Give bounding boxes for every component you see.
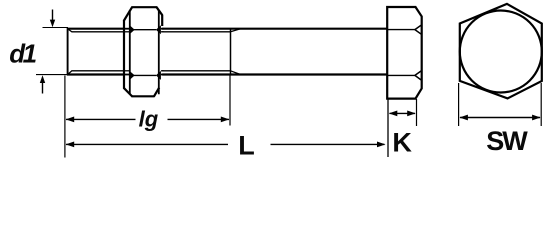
bolt head (side view outline) — [387, 7, 422, 99]
thread crest top inner line — [72, 31, 231, 33]
head chamfer wedge bottom — [415, 71, 421, 80]
head chamfer wedge top — [415, 25, 421, 34]
L arrow left — [66, 142, 75, 148]
nut top-left corner slope — [124, 7, 133, 21]
SW right extension line — [540, 83, 542, 126]
thread end chamfer bottom — [68, 71, 72, 75]
L arrow right — [377, 142, 386, 148]
lg dimension line right — [168, 118, 230, 120]
lg dimension line left — [66, 118, 136, 120]
d1 extension line bottom — [36, 74, 68, 76]
thread stub right of nut wedges top — [161, 28, 164, 30]
head end view inscribed circle — [460, 11, 542, 93]
K arrow right — [407, 111, 416, 117]
nut bottom-left corner slope — [124, 88, 133, 97]
nut chamfer wedge top right — [156, 25, 161, 34]
L/K shared extension line under head left face — [387, 99, 389, 157]
svg-text:d1: d1 — [9, 39, 36, 69]
lg right extension line — [229, 76, 231, 126]
thread left end face — [67, 28, 69, 75]
nut chamfer line top — [133, 29, 156, 31]
K arrow left — [389, 111, 398, 117]
head end view hexagon — [460, 4, 542, 99]
SW arrow right — [532, 115, 541, 121]
head chamfer line bottom — [388, 74, 416, 76]
thread runout diagonal bottom — [231, 71, 241, 75]
K dimension line — [390, 112, 416, 114]
head chamfer line top — [388, 29, 416, 31]
thread end chamfer top — [68, 29, 72, 32]
d1 arrow top — [52, 10, 54, 22]
nut right edge upper stub — [161, 15, 163, 26]
nut left edge — [123, 20, 125, 88]
nut right facet line — [158, 10, 160, 94]
d1 extension line top — [43, 27, 69, 29]
svg-text:K: K — [392, 127, 412, 157]
SW arrow left — [459, 115, 468, 121]
d1 arrow bottom — [42, 82, 44, 94]
nut chamfer wedge top left — [130, 25, 135, 34]
svg-text:lg: lg — [139, 107, 159, 132]
nut bottom-right corner slope — [154, 88, 159, 97]
SW dimension line — [460, 117, 540, 119]
lg arrow left — [66, 117, 75, 123]
nut top-right corner slope — [156, 7, 162, 16]
svg-text:L: L — [238, 130, 255, 160]
nut top edge — [132, 6, 158, 8]
lg arrow right — [221, 117, 230, 123]
shank bottom outer line — [67, 73, 388, 75]
thread runout line — [230, 28, 232, 75]
SW left extension line — [458, 83, 460, 126]
K right extension line — [416, 99, 418, 126]
thread crest bottom inner line — [72, 70, 231, 72]
svg-text:SW: SW — [486, 126, 528, 156]
lg/L left extension line — [64, 76, 66, 158]
L dimension line right — [271, 143, 385, 145]
nut chamfer line bottom — [133, 74, 156, 76]
thread stub in nut left facet top — [124, 28, 130, 30]
shank top outer line — [67, 28, 388, 30]
nut chamfer wedge bottom right — [156, 71, 161, 80]
nut chamfer wedge bottom left — [130, 71, 135, 80]
nut body white fill (side view) — [124, 7, 162, 96]
L dimension line left — [66, 143, 228, 145]
nut left facet line — [129, 10, 131, 94]
nut bottom edge — [132, 95, 155, 97]
thread stub right of nut wedges bottom — [161, 74, 164, 76]
thread stub in nut left facet bottom — [124, 74, 130, 76]
thread runout diagonal top — [231, 29, 241, 32]
